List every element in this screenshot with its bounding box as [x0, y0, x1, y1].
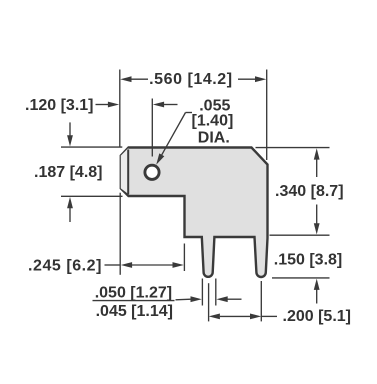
svg-text:.560 [14.2]: .560 [14.2] [149, 71, 232, 88]
svg-text:.245 [6.2]: .245 [6.2] [28, 257, 102, 274]
svg-text:.050 [1.27]: .050 [1.27] [95, 284, 172, 301]
svg-text:DIA.: DIA. [198, 130, 230, 147]
svg-text:[1.40]: [1.40] [192, 113, 234, 130]
svg-text:.120 [3.1]: .120 [3.1] [25, 97, 93, 114]
svg-text:.045 [1.14]: .045 [1.14] [96, 303, 173, 320]
svg-text:.200 [5.1]: .200 [5.1] [283, 308, 351, 325]
svg-text:.187 [4.8]: .187 [4.8] [34, 164, 102, 181]
svg-text:.340 [8.7]: .340 [8.7] [275, 183, 343, 200]
svg-text:.150 [3.8]: .150 [3.8] [274, 251, 342, 268]
